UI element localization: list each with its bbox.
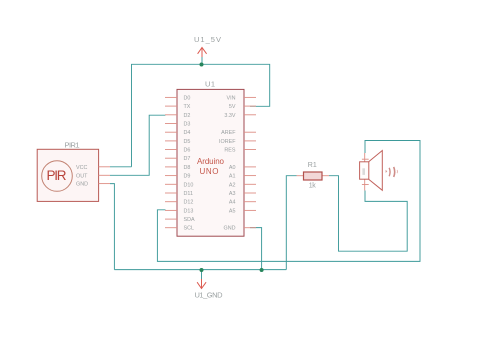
svg-text:D7: D7 xyxy=(184,156,191,162)
svg-text:D6: D6 xyxy=(184,148,191,154)
svg-text:D5: D5 xyxy=(184,139,191,145)
svg-text:1k: 1k xyxy=(309,183,317,190)
svg-text:VIN: VIN xyxy=(227,95,236,101)
svg-text:PIR1: PIR1 xyxy=(65,141,80,150)
svg-text:R1: R1 xyxy=(308,162,317,169)
svg-text:D12: D12 xyxy=(184,200,194,206)
svg-text:TX: TX xyxy=(184,104,191,110)
svg-text:U1_GND: U1_GND xyxy=(195,291,224,300)
svg-text:A2: A2 xyxy=(229,182,236,188)
svg-text:A3: A3 xyxy=(229,191,236,197)
svg-text:D9: D9 xyxy=(184,174,191,180)
svg-text:UNO: UNO xyxy=(200,167,219,176)
svg-text:A1: A1 xyxy=(229,174,236,180)
svg-text:AREF: AREF xyxy=(221,130,236,136)
svg-text:GND: GND xyxy=(76,182,88,188)
svg-text:A4: A4 xyxy=(229,200,236,206)
svg-text:D2: D2 xyxy=(184,113,191,119)
svg-text:IOREF: IOREF xyxy=(219,139,236,145)
svg-text:D0: D0 xyxy=(184,95,191,101)
svg-text:Arduino: Arduino xyxy=(197,157,225,166)
svg-text:D11: D11 xyxy=(184,191,194,197)
svg-text:VCC: VCC xyxy=(76,165,87,171)
svg-text:SDA: SDA xyxy=(184,217,195,223)
svg-text:U1: U1 xyxy=(205,80,215,89)
svg-text:5V: 5V xyxy=(229,104,236,110)
svg-text:GND: GND xyxy=(224,226,236,232)
svg-text:D3: D3 xyxy=(184,122,191,128)
svg-text:D10: D10 xyxy=(184,182,194,188)
svg-text:RES: RES xyxy=(224,148,235,154)
svg-text:OUT: OUT xyxy=(76,173,88,179)
svg-text:A0: A0 xyxy=(229,165,236,171)
svg-text:D4: D4 xyxy=(184,130,191,136)
svg-text:PIR: PIR xyxy=(47,168,67,183)
svg-text:A5: A5 xyxy=(229,208,236,214)
svg-text:D13: D13 xyxy=(184,208,194,214)
svg-text:U1_5V: U1_5V xyxy=(194,35,221,44)
svg-text:D8: D8 xyxy=(184,165,191,171)
svg-text:3.3V: 3.3V xyxy=(224,113,235,119)
svg-text:SCL: SCL xyxy=(184,226,195,232)
